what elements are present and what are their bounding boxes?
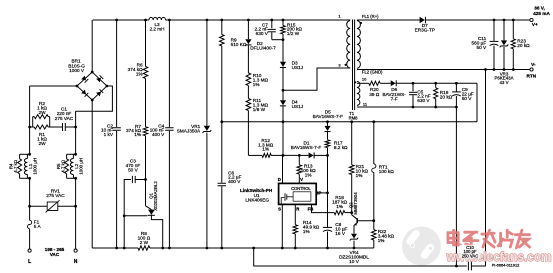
wire bias pin10 to R20 (357, 82, 369, 84)
node junction RV1 left (28, 205, 31, 208)
resistor R21 (349, 165, 354, 175)
svg-text:275 VAC: 275 VAC (46, 193, 65, 198)
node top rail R15 column (282, 19, 285, 22)
node bottom rail C3 column (123, 247, 126, 250)
resistor R18 (334, 211, 345, 215)
thermistor RT1 (372, 164, 376, 175)
wire C8 to source rail (327, 232, 329, 249)
node top rail C7 column (270, 19, 273, 22)
inductor L1 (24, 159, 27, 175)
capacitor C2 (112, 127, 120, 129)
resistor R12 (248, 154, 262, 156)
transformer T1 polarity dot bias (354, 81, 356, 83)
node junction aux return on C10 rail (455, 265, 458, 268)
node junction R1R2 wire on L column (28, 126, 31, 129)
transistor Q2 (352, 215, 358, 219)
resistor R10 (246, 73, 251, 86)
wire R20 to D6 (380, 82, 391, 84)
node bias C9 top (455, 82, 458, 85)
wire bias return pin11 (357, 106, 457, 108)
label D5 to R17 wire (327, 132, 329, 140)
resistor R13 (298, 155, 300, 164)
svg-text:1%: 1% (262, 147, 269, 152)
wire R21 to Q2 collector node (351, 175, 353, 215)
capacitor C3 (131, 176, 133, 183)
wire FL1 output (357, 19, 420, 21)
terminal V+ (530, 18, 533, 21)
svg-text:DFLUI400-7: DFLUI400-7 (250, 46, 276, 51)
node output C11 top (493, 19, 496, 22)
node bottom rail C8 (326, 247, 329, 250)
TVS diode VR1 (204, 126, 210, 131)
svg-text:100 kΩ: 100 kΩ (379, 169, 394, 174)
resistor R19 (435, 83, 437, 88)
node junction BP C8 (326, 192, 329, 195)
node bias C5 bottom (412, 106, 415, 109)
node top rail R9 column (220, 19, 223, 22)
svg-text:10: 10 (362, 77, 367, 82)
svg-text:V-: V- (531, 62, 536, 67)
wire N column to terminal (75, 178, 77, 249)
capacitor C7 lower wire (271, 32, 273, 39)
node junction D1 R17 BP column (326, 154, 329, 157)
svg-text:S: S (278, 207, 281, 212)
transformer T1 primary winding (347, 21, 351, 68)
resistor R8 (138, 246, 150, 250)
svg-text:7-F: 7-F (391, 96, 398, 101)
wire bias return down to C10 (455, 107, 457, 266)
svg-text:36 V,: 36 V, (534, 6, 545, 11)
node output C11 bottom (493, 68, 496, 71)
svg-text:1%: 1% (336, 204, 343, 209)
wire R18 to Q2 node (345, 212, 352, 214)
wire R1R2 to C1 (50, 126, 63, 128)
wire R7 down to thyristor Q1 anode (145, 136, 147, 206)
resistor R7 (143, 127, 148, 136)
node junction C3 right on Q1 column (144, 178, 147, 181)
wire RT1 column from sense wire (372, 120, 375, 123)
wire top rail to R9 (221, 20, 223, 35)
node junction base RT1 column (372, 219, 375, 222)
svg-text:510 KΩ: 510 KΩ (231, 42, 247, 47)
capacitor C7 upper wire (271, 20, 273, 28)
diode D2 (245, 39, 251, 44)
wire R9 to drain sense node (221, 46, 223, 122)
wire D3 to primary return node (282, 68, 284, 90)
wire output V+ rail (426, 19, 530, 21)
node junction drain column sense wire (282, 120, 285, 123)
svg-text:D: D (278, 177, 281, 182)
node bottom rail C6 (220, 247, 223, 250)
node junction R13 top (298, 154, 301, 157)
TVS diode VR1 upper wire (206, 20, 208, 126)
resistor R5 with inductor L2 parallel combo (67, 153, 76, 155)
node junction RTN riser on output rail (484, 68, 487, 71)
svg-text:50 V: 50 V (477, 45, 488, 50)
svg-text:N: N (74, 259, 78, 265)
node junction drain node (282, 154, 285, 157)
svg-text:630 V: 630 V (417, 98, 430, 103)
wire fuse to L terminal (29, 229, 31, 249)
svg-text:8.2 kΩ: 8.2 kΩ (334, 145, 348, 150)
svg-text:4.7 kΩ: 4.7 kΩ (13, 159, 18, 173)
svg-text:RTN: RTN (526, 74, 536, 79)
wire R6 to R7 (145, 79, 147, 127)
terminal V- RTN (530, 68, 533, 71)
U1 internal mosfet (281, 198, 284, 205)
wire R13 to V pin (298, 174, 300, 183)
svg-text:1000 V: 1000 V (69, 68, 85, 73)
svg-text:1/8 W: 1/8 W (253, 107, 266, 112)
node bottom rail VR1 (206, 247, 209, 250)
node junction Q2 collector R21 R18 (350, 211, 353, 214)
capacitor C10 (467, 262, 469, 271)
svg-text:V+: V+ (532, 22, 538, 27)
resistor R4 with inductor L1 parallel combo (20, 153, 30, 155)
svg-text:SMAJ350A: SMAJ350A (177, 129, 201, 134)
wire BR1 negative output down (91, 100, 93, 248)
capacitor C3 left wire (124, 180, 131, 249)
node output VR3 top (503, 19, 506, 22)
svg-text:39 Ω: 39 Ω (369, 92, 380, 97)
resistor R17 (325, 140, 330, 148)
capacitor C8 (323, 226, 332, 228)
svg-text:MMBT3904: MMBT3904 (353, 192, 358, 215)
wire RT1 to R22 (373, 175, 375, 230)
diode D5 (324, 126, 330, 131)
svg-text:1%: 1% (253, 82, 260, 87)
wire jog down to C10 rail (254, 248, 467, 266)
svg-text:X0202MA2BL2: X0202MA2BL2 (153, 181, 158, 211)
wire D4 to sense wire (282, 106, 284, 122)
capacitor C6 lower wire (221, 186, 223, 248)
svg-text:250 VAC: 250 VAC (462, 253, 478, 258)
node junction primary pin3 wire (282, 89, 285, 92)
wire D1 to R17 column (314, 154, 327, 156)
resistor R2 (parallel pair top) (32, 117, 34, 128)
wire C1 to N column (66, 126, 76, 128)
svg-text:2W: 2W (38, 141, 46, 146)
wire D pin (282, 155, 284, 183)
wire D6 to bias node (396, 82, 477, 84)
wire clamp to D3 (282, 40, 284, 62)
svg-text:50 V: 50 V (128, 167, 139, 172)
wire L-side column upper (29, 86, 31, 154)
inductor L3 (149, 17, 166, 20)
varistor RV1 (30, 205, 48, 207)
wire R14 to source rail (294, 234, 296, 248)
wire R12 to drain node (271, 154, 282, 156)
wire S pin to source rail (281, 204, 283, 248)
svg-text:BAV16WS-7-F: BAV16WS-7-F (313, 114, 344, 119)
resistor R14 (293, 225, 298, 234)
node junction C1 wire on N column (74, 126, 77, 129)
wire BP column to C8 (327, 193, 329, 227)
capacitor C2 column upper wire (116, 20, 118, 127)
node junction gate wire on C3 column (123, 214, 126, 217)
svg-text:LNK406EG: LNK406EG (245, 197, 269, 202)
capacitor C4 upper wire (168, 20, 170, 127)
fuse F1 (28, 220, 32, 228)
node bias C5 top (412, 82, 415, 85)
node bottom rail C2 (115, 247, 118, 250)
node bottom rail C4 (168, 247, 171, 250)
capacitor C9 (455, 83, 457, 91)
wire bias node down to sense wire (476, 83, 478, 122)
wire R11 down to R12 (247, 111, 249, 156)
node output VR3 bottom (503, 68, 506, 71)
svg-text:US1J: US1J (292, 104, 303, 109)
diode D3 (280, 62, 286, 67)
node top rail C2 column (115, 19, 118, 22)
svg-text:1%: 1% (378, 238, 385, 243)
svg-text:1000 µH: 1000 µH (79, 158, 84, 175)
svg-text:400 V: 400 V (228, 179, 241, 184)
TVS diode VR1 lower wire (206, 133, 208, 248)
node junction RV1 right (74, 205, 77, 208)
svg-text:16 V: 16 V (335, 231, 346, 236)
wire top + rail from L3 to transformer (166, 19, 351, 21)
terminal N (74, 249, 77, 252)
node top rail D2 column (247, 19, 250, 22)
zener diode VR3 (503, 20, 505, 40)
wire Q1 gate (124, 215, 147, 217)
capacitor C11 (493, 20, 495, 41)
wire R13 junction to D1 (283, 154, 299, 156)
wire top rail to R6 (145, 20, 147, 67)
node bottom rail R14 (294, 247, 297, 250)
resistor R15 (282, 20, 284, 26)
wire BP pin (316, 192, 327, 194)
node top rail C4 column (168, 19, 171, 22)
resistor R11 (246, 99, 251, 111)
inductor L2 (70, 159, 73, 175)
diode D2 upper wire (247, 20, 249, 39)
wire Q2 base to RT1 column (357, 220, 374, 222)
capacitor C4 lower wire (168, 131, 170, 248)
svg-text:V: V (300, 177, 303, 182)
svg-text:FB: FB (308, 207, 314, 212)
svg-text:2.2 mH: 2.2 mH (150, 26, 165, 31)
node bottom rail Q1 cathode (161, 247, 164, 250)
wire VR4 to source rail (353, 241, 355, 248)
node bias R19 bottom (434, 106, 437, 109)
svg-text:1%: 1% (303, 229, 310, 234)
wire bottom source rail left segment (92, 247, 138, 249)
capacitor C7 (268, 28, 276, 30)
svg-text:1000 µH: 1000 µH (33, 158, 38, 175)
svg-text:ER3G-TP: ER3G-TP (415, 27, 435, 32)
resistor R6 (143, 67, 148, 79)
wire D5 from sense wire (326, 120, 329, 123)
svg-text:1%: 1% (136, 71, 143, 76)
svg-text:43 V: 43 V (499, 80, 508, 85)
resistor R23 (512, 20, 514, 39)
wire BR1 right AC input jog to N column (76, 86, 113, 111)
svg-text:FL2 (GND): FL2 (GND) (362, 70, 383, 75)
wire L column to fuse (29, 178, 31, 220)
wire N-side column upper (75, 111, 77, 154)
label C10 value (460, 245, 481, 259)
node top rail VR1 column (206, 19, 209, 22)
wire R22 to source rail end (373, 240, 375, 248)
svg-text:PI-6664-011912: PI-6664-011912 (492, 263, 520, 268)
transformer T1 core (352, 20, 354, 111)
label PI document number (491, 263, 522, 268)
diode D7 (420, 17, 425, 23)
svg-text:1/2 W: 1/2 W (287, 31, 300, 36)
wire R pin to R14 (294, 204, 296, 224)
svg-text:400 V: 400 V (152, 132, 165, 137)
node output R23 bottom (512, 68, 515, 71)
wire FL2 return rail (357, 69, 530, 71)
capacitor C4 (165, 127, 173, 129)
svg-text:275 VAC: 275 VAC (55, 116, 74, 121)
wire R10 to R11 (247, 86, 249, 99)
svg-text:20 kΩ: 20 kΩ (440, 94, 453, 99)
wire C10 to RTN riser (472, 70, 486, 267)
capacitor C5 (412, 83, 414, 91)
wire BR1 left AC input to L column (30, 85, 77, 87)
capacitor C2 lower wire to ground rail (116, 131, 118, 248)
transformer T1 polarity dot secondary (360, 22, 362, 24)
wire to transformer pin 3 (283, 68, 350, 90)
bridge rectifier BR1 (77, 72, 107, 100)
diode D6 (391, 80, 396, 86)
thyristor Q1 (146, 206, 152, 210)
capacitor C1 (62, 123, 64, 131)
svg-text:630 V: 630 V (256, 31, 269, 36)
diode D1 (309, 152, 314, 158)
svg-text:1%: 1% (356, 173, 363, 178)
zener diode VR4 (351, 234, 357, 239)
watermark logo circle (402, 227, 441, 266)
wire main horizontal sense node (222, 121, 477, 123)
wire C7 R15 junction bar (272, 39, 283, 41)
op-amp U1 LinkSwitch-PH block (279, 183, 317, 204)
wire top + rail from bridge to L3 (93, 19, 149, 21)
svg-text:1 kV: 1 kV (104, 132, 114, 137)
svg-text:1%: 1% (305, 172, 312, 177)
node bottom rail S pin (281, 247, 284, 250)
transformer T1 polarity dot primary (345, 64, 347, 66)
svg-text:CONTROL: CONTROL (291, 186, 311, 191)
svg-text:10 V: 10 V (349, 259, 360, 264)
svg-text:BAV16WS-7-F: BAV16WS-7-F (291, 145, 322, 150)
node output R23 top (512, 19, 515, 22)
wire R17 to BP column (327, 148, 329, 193)
node bottom rail VR4 (353, 247, 356, 250)
wire D2 to R10 (247, 45, 249, 73)
transformer T1 secondary winding FL1-FL2 (357, 21, 361, 69)
svg-text:50 V: 50 V (462, 96, 473, 101)
wire FB pin to R18 (312, 204, 335, 212)
diode D4 (282, 90, 284, 100)
svg-text:US1J: US1J (292, 65, 303, 70)
capacitor C6 upper wire (221, 122, 223, 183)
svg-text:2 W: 2 W (140, 240, 149, 245)
resistor R1 (parallel pair bottom) (34, 125, 48, 129)
svg-text:RM8: RM8 (349, 115, 359, 120)
svg-text:425 mA: 425 mA (533, 11, 550, 16)
terminal L (28, 249, 31, 252)
watermark chinese characters (448, 230, 461, 245)
svg-text:1%: 1% (134, 132, 141, 137)
wire bottom source rail right segment (150, 247, 374, 249)
svg-text:VAC: VAC (50, 252, 60, 257)
wire drain column down to D pin node (282, 122, 284, 156)
svg-text:2W: 2W (38, 110, 46, 115)
node junction R9 C6 horizontal wire (220, 120, 223, 123)
node bias return C9 (455, 106, 458, 109)
node junction rail to Y-cap jog (252, 247, 255, 250)
transformer T1 bias winding (357, 82, 360, 106)
resistor R20 (369, 81, 380, 85)
svg-text:4.7 kΩ: 4.7 kΩ (60, 159, 65, 173)
resistor R9 (220, 35, 225, 47)
node top rail R6 column (144, 19, 147, 22)
resistor R22 (372, 230, 377, 240)
svg-text:5 A: 5 A (34, 224, 42, 229)
wire BR1 + output stub (91, 20, 93, 72)
wire R21 column from sense wire (350, 120, 353, 123)
node bias R19 top (434, 82, 437, 85)
svg-text:20 kΩ: 20 kΩ (517, 43, 530, 48)
svg-text:L: L (28, 259, 31, 265)
svg-text:FL1 (R+): FL1 (R+) (362, 14, 379, 19)
capacitor C6 (218, 182, 226, 184)
